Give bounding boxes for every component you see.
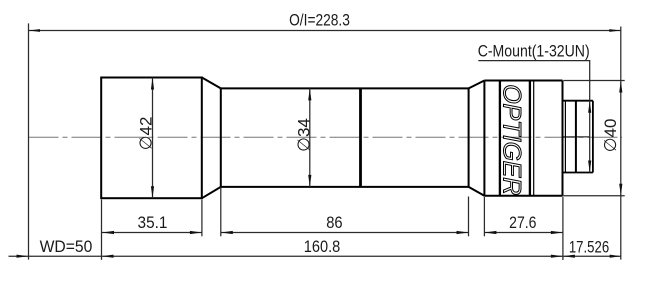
svg-text:WD=50: WD=50 [40, 237, 93, 256]
svg-text:17.526: 17.526 [569, 237, 609, 256]
svg-text:∅34: ∅34 [294, 118, 313, 152]
svg-text:86: 86 [326, 213, 342, 232]
svg-text:160.8: 160.8 [304, 237, 341, 256]
svg-text:OPTIGER: OPTIGER [497, 84, 525, 195]
svg-text:∅40: ∅40 [601, 119, 620, 153]
svg-text:O/I=228.3: O/I=228.3 [289, 11, 350, 30]
svg-text:∅42: ∅42 [137, 117, 156, 151]
svg-text:27.6: 27.6 [509, 213, 536, 232]
svg-text:35.1: 35.1 [138, 213, 168, 232]
svg-text:C-Mount(1-32UN): C-Mount(1-32UN) [478, 42, 590, 61]
